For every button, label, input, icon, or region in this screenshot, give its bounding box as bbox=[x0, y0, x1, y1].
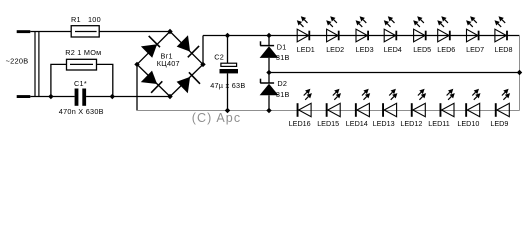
svg-text:R1: R1 bbox=[71, 15, 81, 24]
LED16 bbox=[297, 89, 312, 117]
zener D2 triangle bbox=[260, 84, 279, 96]
svg-text:470n X 630В: 470n X 630В bbox=[59, 107, 104, 116]
svg-text:LED9: LED9 bbox=[490, 119, 508, 128]
capacitor C2 plus plate bbox=[221, 63, 237, 66]
LED5 bbox=[413, 16, 426, 42]
node middle tap right bbox=[517, 70, 522, 75]
LED1 bbox=[297, 16, 310, 42]
wire R2 right lead bbox=[97, 64, 113, 96]
diode upper-left cathode bar bbox=[149, 36, 160, 47]
node bridge bottom corner bbox=[167, 94, 172, 99]
svg-text:LED2: LED2 bbox=[326, 45, 344, 54]
wire middle tap bbox=[269, 72, 520, 74]
wire plug line 1 bbox=[34, 32, 36, 97]
wire bridge arm lower-left bbox=[137, 64, 170, 96]
resistor R1 body bbox=[71, 26, 99, 37]
diode upper-right cathode bar bbox=[188, 46, 199, 57]
capacitor C1 left plate bbox=[75, 89, 79, 106]
svg-text:LED12: LED12 bbox=[400, 119, 422, 128]
svg-text:LED4: LED4 bbox=[384, 45, 402, 54]
svg-text:47µ x 63В: 47µ x 63В bbox=[210, 81, 245, 90]
LED7 bbox=[466, 16, 479, 42]
wire minus rail bbox=[137, 110, 520, 112]
wire C2 top lead bbox=[227, 36, 229, 64]
wire R1 to bridge top corner bbox=[99, 31, 170, 33]
wire D2 bottom lead bbox=[268, 95, 270, 110]
capacitor C1 right plate bbox=[82, 89, 86, 106]
wire D1 top lead bbox=[268, 36, 270, 46]
svg-text:LED3: LED3 bbox=[356, 45, 374, 54]
svg-text:R2 1 МОм: R2 1 МОм bbox=[65, 48, 101, 57]
LED4 bbox=[384, 16, 397, 42]
wire C1 to bridge bottom corner bbox=[86, 96, 170, 98]
zener D2 cathode bar bbox=[260, 82, 274, 84]
svg-text:КЦ407: КЦ407 bbox=[157, 59, 180, 68]
svg-text:LED15: LED15 bbox=[317, 119, 339, 128]
LED3 bbox=[356, 16, 369, 42]
wire bridge minus down (crosses AC wire) bbox=[136, 64, 138, 110]
wire bottom AC from terminal to C1 bbox=[30, 96, 74, 98]
svg-text:31В: 31В bbox=[276, 90, 290, 99]
zener D2 cathode tick bbox=[260, 79, 262, 83]
node R2-C1 left junction bbox=[48, 94, 53, 99]
wire inside R1 bbox=[75, 31, 97, 33]
wire top AC from terminal to R1 bbox=[30, 31, 71, 33]
wire inside R2 bbox=[70, 63, 93, 65]
wire right edge bbox=[519, 35, 521, 111]
wire bridge arm upper-left bbox=[137, 32, 170, 65]
svg-text:LED6: LED6 bbox=[437, 45, 455, 54]
diode lower-left of bridge VD (triangle) bbox=[141, 71, 157, 84]
zener D1 cathode bar bbox=[260, 45, 274, 47]
node D1 top bbox=[266, 33, 271, 38]
svg-text:(C) Apc: (C) Apc bbox=[192, 111, 241, 125]
LED13 bbox=[382, 89, 397, 117]
svg-text:31В: 31В bbox=[276, 53, 290, 62]
node R2-C1 right junction bbox=[110, 94, 115, 99]
node bridge left corner bbox=[134, 62, 139, 67]
diode upper-right of bridge VD (triangle) bbox=[177, 35, 190, 51]
wire R2 left lead bbox=[51, 64, 67, 96]
node C2 bottom bbox=[225, 108, 230, 113]
LED10 bbox=[465, 89, 480, 117]
LED11 bbox=[440, 89, 455, 117]
zener D1 cathode tick bbox=[260, 41, 262, 45]
wire plug line 2 bbox=[38, 32, 40, 97]
terminal X1b (mains bottom pin) bbox=[17, 95, 31, 98]
LED14 bbox=[355, 89, 370, 117]
svg-text:LED7: LED7 bbox=[466, 45, 484, 54]
svg-text:C2: C2 bbox=[214, 52, 224, 61]
svg-text:LED16: LED16 bbox=[289, 119, 311, 128]
svg-text:LED14: LED14 bbox=[346, 119, 368, 128]
wire plus rail bbox=[203, 35, 520, 37]
svg-text:С1*: С1* bbox=[74, 79, 87, 88]
terminal X1a (mains top pin) bbox=[17, 30, 31, 33]
LED8 bbox=[495, 16, 508, 42]
diode lower-left cathode bar bbox=[151, 81, 162, 93]
node bridge right corner bbox=[200, 62, 205, 67]
resistor R2 body bbox=[67, 59, 97, 70]
wire bridge arm lower-right bbox=[170, 64, 203, 96]
node D2 bottom bbox=[266, 108, 271, 113]
wire bridge arm upper-right bbox=[170, 32, 203, 65]
svg-text:~220В: ~220В bbox=[6, 57, 29, 66]
svg-text:LED13: LED13 bbox=[373, 119, 395, 128]
LED12 bbox=[411, 89, 426, 117]
diode lower-right of bridge VD (triangle) bbox=[177, 77, 191, 93]
zener D1 triangle bbox=[260, 46, 279, 58]
svg-text:LED10: LED10 bbox=[457, 119, 479, 128]
svg-text:LED8: LED8 bbox=[495, 45, 513, 54]
capacitor C2 minus plate bbox=[220, 69, 239, 73]
node bridge top corner bbox=[167, 29, 172, 34]
wire C2 bottom lead bbox=[227, 73, 229, 110]
svg-text:D1: D1 bbox=[277, 42, 287, 51]
wire D1-D2 link bbox=[268, 58, 270, 83]
svg-text:D2: D2 bbox=[277, 79, 287, 88]
LED2 bbox=[326, 16, 339, 42]
diode upper-left of bridge VD (triangle) bbox=[141, 44, 157, 58]
svg-text:LED11: LED11 bbox=[428, 119, 449, 128]
LED15 bbox=[326, 89, 341, 117]
svg-text:LED1: LED1 bbox=[297, 45, 315, 54]
diode lower-right cathode bar bbox=[189, 72, 200, 84]
node D1-D2 middle tap bbox=[266, 70, 271, 75]
svg-text:LED5: LED5 bbox=[413, 45, 431, 54]
LED6 bbox=[437, 16, 450, 42]
LED9 bbox=[495, 89, 510, 117]
wire bridge plus up bbox=[202, 36, 204, 65]
node C2 top bbox=[225, 33, 230, 38]
svg-text:100: 100 bbox=[88, 15, 101, 24]
